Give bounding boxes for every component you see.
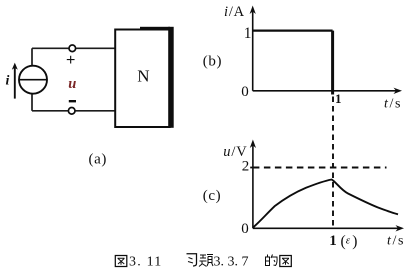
tick at 2 — [250, 167, 255, 169]
caption hanzi tu2 (图) — [280, 256, 292, 267]
svg-text:t/s: t/s — [384, 97, 402, 112]
i axis arrowhead — [250, 6, 256, 15]
caption hanzi de (的) — [266, 255, 278, 266]
wire left vertical lower — [31, 94, 33, 111]
network box top shadow — [140, 27, 170, 30]
svg-text:): ) — [352, 233, 357, 250]
caption hanzi ti (题) — [199, 255, 213, 267]
svg-text:N: N — [137, 67, 149, 86]
wire top-left horizontal — [32, 47, 69, 49]
svg-text:0: 0 — [241, 221, 249, 237]
svg-text:(a): (a) — [89, 152, 107, 168]
pulse top — [253, 30, 333, 32]
svg-text:+: + — [66, 52, 75, 69]
caption hanzi tu1 (图) — [115, 256, 127, 267]
axis t/s horizontal (c) — [253, 227, 401, 229]
svg-text:1: 1 — [244, 25, 252, 42]
network box right shadow — [168, 27, 174, 128]
dashed level-2 line — [253, 167, 387, 169]
svg-text:i/A: i/A — [224, 4, 245, 20]
axis t/s horizontal — [253, 90, 399, 92]
wire bottom-left horizontal — [32, 110, 68, 112]
polarity minus — [69, 100, 76, 102]
svg-text:1: 1 — [335, 91, 342, 106]
svg-text:3. 11: 3. 11 — [129, 255, 162, 270]
u(t) curve — [253, 180, 398, 228]
dashed vertical t=1 line — [332, 97, 334, 229]
svg-text:0: 0 — [241, 84, 249, 100]
svg-text:3. 3. 7: 3. 3. 7 — [214, 255, 249, 270]
svg-text:1: 1 — [329, 233, 337, 249]
wire bottom right of terminal to N — [75, 110, 114, 112]
current source CS circle — [19, 66, 47, 94]
svg-text:u: u — [68, 76, 76, 92]
current source bar (horizontal diameter) — [19, 79, 46, 81]
current direction arrow shaft — [14, 67, 16, 99]
current direction arrowhead — [12, 63, 18, 70]
terminal bottom — [68, 108, 75, 115]
wire top right of terminal to N — [76, 47, 115, 49]
wire left vertical upper — [31, 48, 33, 66]
svg-text:t/s: t/s — [387, 233, 405, 248]
svg-text:u/V: u/V — [223, 144, 247, 160]
axis u/V vertical — [252, 143, 254, 229]
terminal top — [69, 45, 76, 52]
caption hanzi xi (习) — [187, 254, 197, 266]
svg-text:(c): (c) — [203, 188, 221, 204]
svg-text:(b): (b) — [203, 54, 222, 70]
svg-text:ε: ε — [346, 235, 351, 247]
network box N — [115, 30, 170, 128]
u axis arrowhead — [250, 140, 256, 149]
pulse falling edge — [331, 31, 334, 95]
t axis arrowhead — [394, 88, 403, 94]
svg-text:i: i — [6, 74, 10, 89]
t axis arrowhead (c) — [396, 225, 405, 231]
axis i/A vertical — [252, 9, 254, 91]
svg-text:2: 2 — [242, 159, 250, 175]
